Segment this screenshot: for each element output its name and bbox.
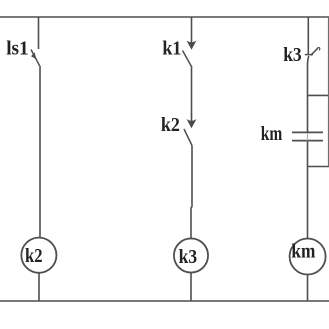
svg-text:k3: k3 [283, 44, 302, 66]
svg-text:km: km [261, 123, 283, 145]
svg-text:k1: k1 [162, 38, 181, 60]
svg-text:k3: k3 [179, 246, 198, 268]
svg-text:k2: k2 [161, 114, 180, 136]
svg-text:k2: k2 [25, 245, 43, 267]
svg-text:km: km [291, 241, 315, 263]
svg-text:ls1: ls1 [6, 38, 29, 60]
